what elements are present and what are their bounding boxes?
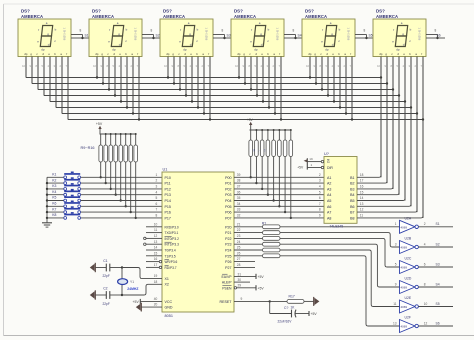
- svg-text:P22: P22: [225, 237, 231, 241]
- svg-text:9: 9: [172, 64, 174, 68]
- svg-text:+5V: +5V: [311, 312, 318, 316]
- wire P00 to 74LS245 A1, pin 39: [225, 173, 324, 180]
- node P3.4 pin 14: [146, 246, 176, 253]
- wire DS1 pin 4 to bus: [42, 57, 44, 96]
- svg-text:GND: GND: [165, 306, 173, 310]
- wire DS5 pin 6 to bus: [338, 57, 342, 109]
- svg-text:8: 8: [36, 64, 38, 68]
- svg-text:37: 37: [237, 185, 241, 189]
- svg-text:33: 33: [237, 208, 241, 212]
- svg-text:7: 7: [319, 202, 321, 206]
- node 74LS245 A7 pin 8: [319, 208, 331, 215]
- svg-text:1: 1: [395, 222, 397, 226]
- node 74LS245 A8 pin 9: [319, 214, 331, 221]
- node P21 pin 22: [225, 228, 240, 235]
- svg-text:39: 39: [237, 173, 241, 177]
- 7-seg display DS6: [373, 9, 426, 57]
- wire DS2 pin 4 to bus: [113, 57, 117, 97]
- wire 74LS245 B7 pin 12 to bus: [350, 208, 417, 215]
- wire P22 resistor to U2C input: [280, 238, 400, 267]
- svg-text:ALE/P: ALE/P: [222, 281, 232, 285]
- resistor R15: [129, 133, 133, 213]
- wire segment-bus line 5: [50, 101, 405, 103]
- svg-text:8051: 8051: [165, 314, 173, 318]
- svg-text:8: 8: [151, 29, 153, 33]
- wire P24 resistor to U2E input: [280, 250, 400, 307]
- node P22 pin 23: [225, 234, 240, 241]
- svg-text:+5V: +5V: [258, 275, 265, 279]
- resistor R9: [99, 134, 103, 179]
- svg-text:K7: K7: [52, 207, 56, 211]
- wire segment-bus line 7: [62, 113, 417, 115]
- svg-text:4: 4: [261, 64, 263, 68]
- wire segment-bus line 4: [44, 95, 399, 97]
- svg-text:22uF/16V: 22uF/16V: [278, 319, 293, 323]
- svg-text:4: 4: [403, 64, 405, 68]
- svg-text:R17: R17: [289, 295, 295, 299]
- svg-text:B4: B4: [350, 193, 354, 197]
- op-amp U2D inverter 4069: [395, 277, 419, 294]
- svg-text:P10: P10: [165, 176, 171, 180]
- svg-text:dp: dp: [237, 52, 240, 56]
- svg-text:1 SH 1056: 1 SH 1056: [347, 28, 351, 41]
- svg-text:P16: P16: [165, 211, 171, 215]
- node EA/VP pin 31 with +5V: [222, 272, 265, 279]
- wire segment-bus line 6: [56, 107, 411, 109]
- wire DS6 pin 8 to bus: [421, 57, 425, 218]
- node 74LS245 A4 pin 5: [319, 190, 331, 197]
- svg-text:f: f: [393, 28, 394, 32]
- svg-text:B6: B6: [350, 205, 354, 209]
- wire DS6 pin 7 to bus: [415, 57, 419, 213]
- resistor R13: [119, 133, 123, 202]
- svg-text:3: 3: [156, 185, 158, 189]
- svg-text:7: 7: [66, 64, 68, 68]
- 7-seg display DS1: [18, 9, 71, 57]
- node 74LS245 A5 pin 6: [319, 196, 331, 203]
- wire DS3 pin 1 to bus: [164, 57, 169, 79]
- wire DS6 pin 4 to bus: [397, 57, 401, 195]
- node P13 pin 4: [156, 190, 171, 197]
- svg-text:4: 4: [424, 242, 426, 246]
- wire P03 to 74LS245 A4, pin 36: [225, 190, 324, 197]
- wire X1 route: [122, 268, 162, 279]
- svg-text:AMBERCA: AMBERCA: [163, 14, 185, 19]
- wire DS6 pin 2 to bus: [385, 57, 389, 184]
- svg-text:f: f: [251, 28, 252, 32]
- svg-text:VCC: VCC: [165, 300, 173, 304]
- wire DS4 pin 2 to bus: [243, 57, 247, 85]
- wire 74LS245 B6 pin 13 to bus: [350, 202, 411, 209]
- svg-text:K8: K8: [52, 213, 56, 217]
- resistor R1: [249, 130, 253, 179]
- node 74LS245 A1 pin 2: [319, 173, 331, 180]
- resistor R17 1K: [269, 295, 315, 310]
- svg-text:38: 38: [237, 179, 241, 183]
- wire segment-bus line 3: [38, 89, 393, 91]
- op-amp U1 8051 MCU body: [162, 168, 234, 318]
- node 74LS245 A6 pin 7: [319, 202, 331, 209]
- svg-text:U1: U1: [163, 168, 168, 172]
- node G pin 19: [307, 157, 330, 164]
- wire button common rail: [46, 177, 48, 219]
- svg-text:U2F: U2F: [405, 316, 411, 320]
- svg-text:S2: S2: [436, 242, 440, 246]
- svg-text:5: 5: [326, 64, 328, 68]
- wire DS4 pin 4 to bus: [255, 57, 259, 97]
- svg-text:30: 30: [238, 278, 242, 282]
- svg-text:AMBERCA: AMBERCA: [376, 14, 398, 19]
- svg-text:TXD/P3.1: TXD/P3.1: [165, 231, 179, 235]
- svg-text:B8: B8: [350, 216, 354, 220]
- svg-text:9: 9: [101, 64, 103, 68]
- svg-text:R9~R16: R9~R16: [81, 146, 95, 150]
- svg-text:5: 5: [42, 64, 44, 68]
- svg-text:+5V: +5V: [132, 300, 139, 304]
- 7-seg display DS3: [160, 9, 213, 57]
- svg-text:2: 2: [344, 64, 346, 68]
- wire DS2 pin 3 to bus: [107, 57, 111, 91]
- wire 74LS245 B5 pin 14 to bus: [350, 196, 405, 203]
- svg-text:S4: S4: [298, 34, 302, 38]
- svg-text:10: 10: [424, 302, 428, 306]
- svg-text:f: f: [322, 28, 323, 32]
- svg-text:5: 5: [156, 196, 158, 200]
- svg-text:4: 4: [119, 64, 121, 68]
- svg-text:14: 14: [154, 246, 158, 250]
- wire X2 route: [122, 284, 162, 295]
- svg-text:3: 3: [409, 64, 411, 68]
- svg-text:P03: P03: [225, 193, 231, 197]
- svg-text:P07: P07: [225, 216, 231, 220]
- svg-text:4069: 4069: [401, 286, 408, 290]
- svg-text:4: 4: [332, 64, 334, 68]
- wire DS3 pin 4 to bus: [184, 57, 188, 97]
- wire DS1 pin 8 to bus: [66, 57, 68, 120]
- svg-text:26: 26: [237, 251, 241, 255]
- wire P21 resistor to U2B input: [280, 233, 400, 247]
- svg-text:P01: P01: [225, 182, 231, 186]
- wire P23 resistor to U2D input: [280, 244, 400, 287]
- svg-text:S6: S6: [436, 321, 440, 325]
- svg-text:A2: A2: [327, 182, 331, 186]
- ground (button rail): [42, 220, 52, 228]
- wire DS2 pin 5 to bus: [119, 57, 123, 103]
- svg-text:3: 3: [54, 64, 56, 68]
- svg-text:10: 10: [306, 64, 309, 68]
- resistor R5: [272, 129, 276, 202]
- svg-text:9: 9: [319, 214, 321, 218]
- svg-text:S1: S1: [436, 222, 440, 226]
- wire DS1 pin 7 to bus: [60, 57, 62, 114]
- svg-text:X1: X1: [165, 277, 169, 281]
- wire DS6 pin 3 to bus: [391, 57, 395, 189]
- +5V power port (R1~R8 rail): [247, 118, 254, 130]
- node 74LS245 A3 pin 4: [319, 185, 331, 192]
- svg-text:4069: 4069: [401, 305, 408, 309]
- svg-text:23: 23: [237, 234, 241, 238]
- svg-text:S1: S1: [85, 34, 89, 38]
- svg-text:9: 9: [30, 64, 32, 68]
- op-amp U2F inverter 4069: [393, 316, 418, 333]
- op-amp U? 74LS245 body: [324, 152, 357, 229]
- wire DS4 pin 5 to bus: [261, 57, 265, 103]
- svg-text:f: f: [38, 28, 39, 32]
- svg-text:P17: P17: [165, 216, 171, 220]
- node P14 pin 5: [156, 196, 171, 203]
- svg-text:P23: P23: [225, 243, 231, 247]
- wire P25 resistor to U2F input: [280, 256, 400, 326]
- svg-text:S6: S6: [437, 34, 441, 38]
- ground (R17): [314, 297, 320, 306]
- svg-text:AMBERCA: AMBERCA: [234, 14, 256, 19]
- resistor R8: [289, 129, 293, 219]
- svg-text:8: 8: [249, 64, 251, 68]
- svg-text:WR/P3.6: WR/P3.6: [165, 260, 178, 264]
- svg-text:4: 4: [48, 64, 50, 68]
- svg-text:4069: 4069: [401, 325, 408, 329]
- svg-text:11: 11: [360, 214, 364, 218]
- svg-text:8: 8: [178, 64, 180, 68]
- svg-text:8: 8: [391, 64, 393, 68]
- svg-text:9: 9: [243, 64, 245, 68]
- push button K7: [46, 206, 81, 213]
- wire DS1 pin 3 to bus: [36, 57, 38, 90]
- svg-text:5: 5: [395, 262, 397, 266]
- svg-text:3: 3: [319, 179, 321, 183]
- svg-text:T1/P3.5: T1/P3.5: [165, 254, 176, 258]
- ground (C1): [90, 263, 96, 272]
- svg-text:+5V: +5V: [96, 122, 103, 126]
- svg-text:S2: S2: [156, 34, 160, 38]
- push button K3: [46, 183, 81, 190]
- resistor R? P21 series: [234, 231, 280, 235]
- svg-text:RXD/P3.0: RXD/P3.0: [165, 225, 179, 229]
- wire P02 to 74LS245 A3, pin 37: [225, 185, 324, 192]
- svg-text:3: 3: [338, 64, 340, 68]
- resistor R? P22 series: [234, 237, 280, 241]
- wire DS5 pin 2 to bus: [314, 57, 318, 85]
- node P15 pin 6: [156, 202, 171, 209]
- svg-text:A4: A4: [327, 193, 331, 197]
- wire DS5 pin 8 to bus: [350, 57, 354, 121]
- svg-text:S4: S4: [436, 282, 440, 286]
- svg-text:C1: C1: [103, 259, 107, 263]
- svg-text:dp: dp: [325, 48, 329, 52]
- svg-text:B1: B1: [350, 176, 354, 180]
- svg-text:U2C: U2C: [405, 257, 412, 261]
- wire DS5 pin 3 to bus: [320, 57, 324, 91]
- svg-text:5: 5: [184, 64, 186, 68]
- node P23 pin 24: [225, 240, 240, 247]
- capacitor C1 22pF: [95, 259, 122, 278]
- wire DS5 pin 1 to bus: [306, 57, 311, 79]
- wire DS4 pin 1 to bus: [235, 57, 240, 79]
- svg-text:B2: B2: [350, 182, 354, 186]
- wire DS3 pin 5 to bus: [190, 57, 194, 103]
- wire segment-bus line 2: [32, 83, 387, 85]
- resistor R6: [278, 129, 282, 208]
- wire DS2 pin 8 to bus: [137, 57, 141, 121]
- svg-text:22pF: 22pF: [103, 274, 110, 278]
- push button K4: [46, 189, 81, 196]
- svg-text:10: 10: [154, 222, 158, 226]
- svg-text:7: 7: [156, 208, 158, 212]
- svg-text:17: 17: [360, 179, 364, 183]
- wire P20 resistor to U2A input: [280, 226, 400, 228]
- svg-text:1K: 1K: [291, 305, 296, 309]
- svg-text:10: 10: [22, 64, 25, 68]
- svg-text:B5: B5: [350, 199, 354, 203]
- svg-text:6: 6: [319, 196, 321, 200]
- svg-text:2: 2: [424, 222, 426, 226]
- svg-text:2: 2: [131, 64, 133, 68]
- wire 74LS245 B8 pin 11 to bus: [350, 214, 423, 221]
- svg-text:U2D: U2D: [405, 277, 412, 281]
- node S4 common-anode wire of DS4: [284, 29, 302, 40]
- svg-text:4069: 4069: [401, 266, 408, 270]
- node P11 pin 2: [156, 179, 171, 186]
- svg-text:1: 1: [311, 163, 313, 167]
- svg-text:K3: K3: [52, 184, 56, 188]
- svg-text:DIR: DIR: [327, 166, 333, 170]
- wire DS1 pin 6 to bus: [54, 57, 56, 108]
- wire K3 to P12: [81, 188, 162, 190]
- svg-text:C2: C2: [103, 286, 107, 290]
- svg-text:3: 3: [196, 64, 198, 68]
- node P3.6 pin 16: [146, 257, 177, 264]
- svg-text:PSEN: PSEN: [222, 286, 232, 290]
- svg-text:1 SH 1056: 1 SH 1056: [205, 28, 209, 41]
- resistor R? P23 series: [234, 242, 280, 246]
- svg-text:74LS245: 74LS245: [330, 225, 344, 229]
- node P20 pin 21: [225, 222, 240, 229]
- svg-text:dp: dp: [396, 48, 400, 52]
- wire DS3 pin 2 to bus: [172, 57, 176, 85]
- wire DS4 pin 6 to bus: [267, 57, 271, 109]
- svg-text:P21: P21: [225, 231, 231, 235]
- svg-text:25: 25: [237, 246, 241, 250]
- svg-text:K4: K4: [52, 190, 56, 194]
- node P3.0 pin 10: [146, 222, 179, 229]
- wire K4 to P13: [81, 194, 162, 196]
- svg-text:18: 18: [154, 280, 158, 284]
- svg-text:S3: S3: [436, 262, 440, 266]
- svg-text:dp: dp: [183, 48, 187, 52]
- node P3.3 pin 13: [144, 240, 179, 247]
- svg-text:INT0/P3.2: INT0/P3.2: [165, 237, 180, 241]
- svg-text:8: 8: [319, 208, 321, 212]
- svg-text:3: 3: [125, 64, 127, 68]
- svg-text:T0/P3.4: T0/P3.4: [165, 249, 176, 253]
- svg-text:2: 2: [319, 173, 321, 177]
- op-amp U2C inverter 4069: [395, 257, 419, 274]
- node P3.7 pin 17: [146, 263, 177, 270]
- node X1 pin 19: [154, 274, 169, 281]
- svg-text:C?: C?: [284, 306, 288, 310]
- svg-text:3: 3: [267, 64, 269, 68]
- svg-text:A3: A3: [327, 187, 331, 191]
- svg-text:17: 17: [154, 263, 158, 267]
- svg-text:14: 14: [360, 196, 364, 200]
- push button K2: [46, 177, 81, 184]
- svg-text:13: 13: [360, 202, 364, 206]
- svg-text:10: 10: [164, 64, 167, 68]
- svg-text:2: 2: [202, 64, 204, 68]
- node P3.1 pin 11: [146, 228, 179, 235]
- node ALE/P pin 30: [222, 278, 250, 285]
- capacitor C2 22pF: [95, 286, 122, 305]
- svg-text:7: 7: [279, 64, 281, 68]
- svg-text:12: 12: [424, 321, 428, 325]
- wire U2C output S3: [418, 262, 453, 267]
- svg-text:12: 12: [154, 234, 158, 238]
- wire DS4 pin 8 to bus: [279, 57, 283, 121]
- crystal Y1 24MHZ: [118, 266, 139, 296]
- svg-text:S5: S5: [436, 302, 440, 306]
- svg-text:16: 16: [154, 257, 158, 261]
- svg-text:U2B: U2B: [405, 237, 412, 241]
- +5V power port (R9~R16 rail): [96, 122, 103, 134]
- svg-text:dp: dp: [41, 48, 45, 52]
- wire +5V rail for R9~R16: [100, 133, 137, 135]
- svg-text:10: 10: [377, 64, 380, 68]
- wire DS6 pin 6 to bus: [409, 57, 413, 207]
- node P27 pin 28: [225, 263, 255, 270]
- svg-text:2: 2: [415, 64, 417, 68]
- svg-text:32: 32: [237, 214, 241, 218]
- wire 74LS245 B1 pin 18 to bus: [350, 173, 381, 180]
- node P10 pin 1: [156, 173, 171, 180]
- svg-text:P27: P27: [225, 266, 231, 270]
- wire 74LS245 B2 pin 17 to bus: [350, 179, 387, 186]
- node 74LS245 A2 pin 3: [319, 179, 331, 186]
- svg-text:8: 8: [293, 29, 295, 33]
- svg-text:S5: S5: [369, 34, 373, 38]
- svg-text:P14: P14: [165, 199, 171, 203]
- wire P06 to 74LS245 A7, pin 33: [225, 208, 324, 215]
- svg-text:4: 4: [156, 190, 158, 194]
- resistor R? P20 series: [234, 225, 280, 229]
- svg-text:S3: S3: [227, 34, 231, 38]
- wire segment-bus line 8: [68, 119, 423, 121]
- svg-text:AMBERCA: AMBERCA: [305, 14, 327, 19]
- svg-text:+5V: +5V: [247, 118, 254, 122]
- svg-text:7: 7: [208, 64, 210, 68]
- svg-text:13: 13: [154, 240, 158, 244]
- svg-text:1 SH 1056: 1 SH 1056: [276, 28, 280, 41]
- svg-text:8: 8: [222, 29, 224, 33]
- node P12 pin 3: [156, 185, 171, 192]
- svg-text:RD/P3.7: RD/P3.7: [165, 266, 177, 270]
- resistor R? P24 series: [234, 248, 280, 252]
- svg-text:8: 8: [320, 64, 322, 68]
- wire DS3 pin 7 to bus: [202, 57, 206, 115]
- resistor R11: [109, 133, 113, 190]
- wire K2 to P11: [81, 182, 162, 184]
- svg-text:P04: P04: [225, 199, 231, 203]
- wire DS2 pin 7 to bus: [131, 57, 135, 115]
- wire DS3 pin 6 to bus: [196, 57, 200, 109]
- resistor R4: [266, 129, 270, 196]
- svg-text:P26: P26: [225, 260, 231, 264]
- svg-text:7: 7: [137, 64, 139, 68]
- svg-text:27: 27: [237, 257, 241, 261]
- push button K1: [47, 172, 81, 179]
- node PSEN pin 29 with +5V: [222, 284, 264, 291]
- svg-text:f: f: [180, 28, 181, 32]
- svg-text:B7: B7: [350, 211, 354, 215]
